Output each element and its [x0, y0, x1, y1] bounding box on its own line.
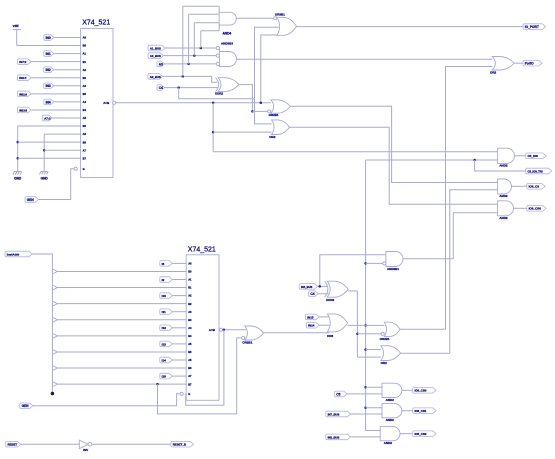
- input label RESET: [6, 441, 21, 447]
- svg-text:A5: A5: [188, 342, 192, 346]
- svg-text:B2: B2: [83, 76, 87, 80]
- comparator U18 X74_521: [186, 255, 219, 400]
- wire label to A2: [172, 295, 186, 297]
- wire U1 G to label: [39, 169, 74, 200]
- svg-text:OR2: OR2: [490, 70, 497, 74]
- svg-text:B6: B6: [188, 366, 192, 370]
- inverter U22 INV: [79, 440, 88, 449]
- svg-text:A3: A3: [188, 310, 192, 314]
- svg-text:C5: C5: [336, 392, 340, 396]
- output label RESET_B: [171, 441, 194, 447]
- wire U19 in1: [366, 386, 382, 388]
- wire A=B U-channel: [186, 330, 224, 406]
- or-gate U3 OR3B1: [277, 17, 297, 35]
- svg-text:A1: A1: [188, 278, 192, 282]
- output label C5_IO8_TRI: [526, 168, 552, 174]
- junction A7: [43, 149, 46, 152]
- junction net-Y d: [364, 386, 367, 389]
- svg-text:IN1: IN1: [46, 52, 51, 56]
- svg-text:B3: B3: [83, 92, 87, 96]
- wire U17 in1: [366, 349, 381, 351]
- input label IN4_BUS: [299, 284, 317, 290]
- wire A3: [164, 63, 216, 65]
- bus wire: [32, 254, 52, 394]
- svg-text:B4: B4: [188, 334, 192, 338]
- input label IN14: [306, 322, 319, 328]
- svg-text:IN0: IN0: [46, 36, 51, 40]
- wire RESET: [21, 443, 80, 445]
- xor-gate U13 XOR2: [327, 281, 348, 297]
- svg-text:AND2: AND2: [386, 418, 394, 422]
- output label C5_IO8: [526, 153, 546, 159]
- wire net-X vertical: [356, 291, 358, 357]
- ground GND1: [17, 169, 19, 171]
- svg-text:AND2: AND2: [499, 216, 507, 220]
- junction A=B 1: [212, 101, 215, 104]
- wire OR3B1 out to IO_PORT: [297, 26, 524, 28]
- wire lowOR2 riser to U10 in2: [450, 190, 498, 353]
- wire OR2B1 out: [290, 106, 497, 182]
- input label C5: [335, 391, 348, 397]
- U18 G bubble: [180, 392, 183, 395]
- svg-text:B2: B2: [188, 302, 192, 306]
- wire U15 out to U14 in3: [264, 332, 329, 334]
- bus tap 3: [53, 318, 57, 322]
- svg-text:C5_IO8: C5_IO8: [528, 154, 539, 158]
- svg-text:AND2B1: AND2B1: [387, 267, 399, 271]
- svg-text:X74_521: X74_521: [188, 247, 216, 254]
- svg-text:A4: A4: [83, 100, 87, 104]
- wire tap to B4: [57, 335, 186, 337]
- svg-text:IN4_BUS: IN4_BUS: [301, 285, 313, 289]
- input label GEN2: [20, 403, 33, 409]
- wire to TRI label: [475, 160, 526, 171]
- and-gate U4 AND3B3: [219, 52, 236, 67]
- input label I15: [160, 373, 173, 379]
- svg-text:AND2: AND2: [499, 194, 507, 198]
- svg-text:A=B: A=B: [103, 101, 110, 105]
- svg-text:B4: B4: [83, 108, 87, 112]
- input label IN15: [305, 314, 319, 320]
- wire label to A6: [172, 359, 186, 361]
- wire B5 net: [18, 125, 81, 127]
- junction XOR2 net: [251, 110, 254, 113]
- wire XOR2 to OR2B1 bubble: [252, 110, 267, 112]
- wire U1 A=B long: [116, 102, 271, 104]
- input label A0_BUS: [148, 74, 163, 80]
- svg-text:A2: A2: [83, 68, 87, 72]
- wire AND2 out: [515, 155, 526, 157]
- svg-text:C5_IO8_TRI: C5_IO8_TRI: [528, 169, 543, 173]
- wire U21 out: [400, 433, 413, 435]
- wire A0_BUS: [163, 76, 218, 82]
- svg-text:A2_BUS: A2_BUS: [150, 54, 161, 58]
- wire label to A4: [172, 327, 186, 329]
- input label IN0: [44, 35, 54, 41]
- svg-text:B7: B7: [83, 156, 87, 160]
- U16 input bubble: [381, 332, 384, 335]
- wire A1_BUS: [165, 47, 216, 49]
- U1 G pin bubble: [74, 167, 77, 170]
- junction net-Y e: [364, 407, 367, 410]
- junction TRI: [473, 159, 476, 162]
- svg-text:IN14: IN14: [308, 324, 315, 328]
- svg-text:IN2: IN2: [46, 68, 51, 72]
- wire U10 out: [512, 185, 527, 187]
- U22 bubble: [88, 442, 92, 446]
- U6 input bubble: [268, 110, 271, 113]
- wire AND3B3 out: [237, 58, 493, 60]
- input label IN3: [44, 83, 54, 89]
- svg-text:I12: I12: [162, 326, 167, 330]
- svg-text:A6: A6: [83, 132, 87, 136]
- wire U11 out: [514, 207, 527, 209]
- svg-text:IN11:6: IN11:6: [19, 92, 27, 96]
- output label IO8_CS: [527, 184, 545, 190]
- output label PortIO: [523, 60, 542, 66]
- U15 input bubble: [242, 336, 245, 339]
- wire vdd to U1 B0: [17, 45, 81, 47]
- or-gate U16 OR2B1 gateC: [384, 322, 400, 336]
- input label IN4: [44, 99, 54, 105]
- input label C4: [157, 85, 164, 91]
- wire A3 riser: [188, 14, 190, 64]
- bus tap 6: [53, 366, 57, 370]
- U1 A=B bubble: [113, 101, 116, 104]
- svg-text:GEN: GEN: [22, 404, 30, 408]
- or-gate U7 OR2: [272, 120, 290, 135]
- svg-text:X74_521: X74_521: [82, 20, 110, 27]
- svg-text:AND2: AND2: [384, 441, 392, 445]
- svg-text:InstAddr: InstAddr: [7, 252, 21, 256]
- junction net-Y c: [364, 348, 367, 351]
- input label IN7:2: [18, 59, 32, 65]
- svg-text:C4: C4: [159, 86, 163, 90]
- bus tap 2: [53, 301, 57, 305]
- junction A1_BUS: [200, 47, 203, 50]
- svg-text:GND: GND: [14, 177, 22, 181]
- junction B6: [16, 141, 19, 144]
- svg-text:A7: A7: [188, 374, 192, 378]
- wire tap to B2: [57, 303, 186, 305]
- wire IN7_BUS: [351, 413, 383, 415]
- svg-text:A1_BUS: A1_BUS: [150, 46, 161, 50]
- junction A=B 2: [260, 101, 263, 104]
- and-gate U12 AND2B1: [386, 252, 403, 267]
- wire A6 net: [44, 133, 80, 135]
- junction net-Y a: [364, 262, 367, 265]
- wire U16 out: [400, 328, 445, 330]
- wire C4 riser to OR3B1: [255, 27, 279, 99]
- output label IO8_CS1: [413, 408, 436, 414]
- input label A7:0: [42, 115, 52, 121]
- wire AND2B1 riser to U11 in2: [453, 213, 497, 259]
- svg-text:IO8_CS: IO8_CS: [529, 185, 540, 189]
- input label IN1: [44, 51, 54, 57]
- input label IN11:6: [18, 91, 32, 97]
- svg-text:AND2: AND2: [386, 398, 394, 402]
- input label A2_BUS: [148, 53, 163, 59]
- bus tap 1: [53, 285, 57, 289]
- wire B7: [18, 157, 81, 159]
- comparator U1 X74_521: [81, 28, 113, 177]
- wire A=B riser to OR3B1: [261, 35, 278, 103]
- wire U2A=B to U15: [223, 329, 246, 331]
- input label A3: [157, 61, 164, 67]
- svg-text:A3: A3: [83, 84, 87, 88]
- svg-text:OR2: OR2: [381, 361, 388, 365]
- wire IN4 riser to U12 in1: [320, 255, 386, 287]
- wire C4b: [318, 293, 328, 295]
- svg-text:I14: I14: [162, 358, 167, 362]
- svg-text:A=B: A=B: [209, 328, 216, 332]
- svg-text:OR3B1: OR3B1: [275, 13, 285, 17]
- U4 bubbles: [216, 46, 219, 49]
- wire label to A1: [172, 279, 186, 281]
- wire B6: [18, 141, 81, 143]
- input label I11: [160, 309, 173, 315]
- svg-text:PortO: PortO: [525, 62, 534, 66]
- svg-text:XOR2: XOR2: [326, 298, 335, 302]
- wire gateB net to AND2 in2: [366, 159, 498, 161]
- wire IN14: [319, 324, 329, 326]
- wire U19 out: [402, 389, 413, 391]
- svg-text:A0: A0: [188, 262, 192, 266]
- ground GND2: [43, 169, 45, 171]
- output label IO8_CS2: [413, 431, 436, 437]
- svg-text:B1: B1: [188, 286, 192, 290]
- svg-text:I15: I15: [162, 375, 167, 379]
- wire U21 in1: [366, 430, 381, 432]
- wire label to A3: [172, 311, 186, 313]
- input label I10: [160, 293, 173, 299]
- svg-text:G: G: [83, 167, 85, 171]
- input label I12: [160, 325, 173, 331]
- svg-text:RESET: RESET: [8, 443, 18, 447]
- input label IN2_BUS: [326, 434, 351, 440]
- svg-text:IN2_BUS: IN2_BUS: [328, 435, 340, 439]
- input label IN2: [44, 67, 54, 73]
- wire tap to B6: [57, 367, 186, 369]
- svg-text:RESET_B: RESET_B: [173, 443, 186, 447]
- svg-text:B3: B3: [188, 318, 192, 322]
- svg-text:B6: B6: [83, 140, 87, 144]
- svg-text:IN15: IN15: [307, 315, 314, 319]
- junction A0_BUS: [182, 75, 185, 78]
- svg-text:OR2B1: OR2B1: [269, 113, 279, 117]
- wire U20 out: [402, 410, 413, 412]
- svg-text:OR2B1: OR2B1: [380, 337, 390, 341]
- svg-text:I9: I9: [162, 278, 165, 282]
- bus end dot: [51, 392, 55, 396]
- wire U13 out: [348, 290, 357, 292]
- wire U20 in1: [366, 407, 382, 409]
- or-gate U14 OR3: [327, 314, 347, 332]
- junction A2_BUS: [193, 54, 196, 57]
- wire A=B drop: [212, 103, 214, 152]
- wire INV out: [92, 443, 171, 445]
- svg-text:IN3: IN3: [46, 84, 51, 88]
- svg-text:B0: B0: [83, 44, 87, 48]
- wire IN15: [319, 316, 330, 318]
- svg-text:IO8_CS1: IO8_CS1: [415, 409, 427, 413]
- svg-text:vdd: vdd: [13, 24, 19, 28]
- junction net-X: [356, 333, 359, 336]
- junction C4: [177, 86, 180, 89]
- wire A1_BUS riser: [200, 31, 202, 48]
- svg-text:A2: A2: [188, 294, 192, 298]
- wire GEN2 to G: [33, 394, 180, 406]
- wire A0_BUS riser: [182, 6, 184, 76]
- junction A=B 3: [212, 131, 215, 134]
- input label IN13:8: [18, 107, 32, 113]
- and-gate U19 AND2: [382, 383, 402, 397]
- wire A=B net to AND2 in1: [213, 151, 498, 153]
- and-gate U11 AND2: [498, 201, 514, 216]
- U3 input bubble: [274, 17, 277, 20]
- wire C4 drop to OR2: [255, 99, 272, 124]
- and-gate U9 AND2: [498, 148, 515, 163]
- wire U12 in2: [366, 262, 383, 264]
- svg-text:GEN: GEN: [27, 198, 35, 202]
- wire A=B to OR2 in2: [213, 131, 271, 133]
- wire XOR2 out: [239, 85, 253, 112]
- wire U12 out: [403, 258, 453, 260]
- or-gate U6 OR2B1: [271, 100, 291, 113]
- and-gate U21 AND2: [380, 427, 400, 441]
- wire net-X to gateC bubble: [357, 333, 383, 335]
- output label IO_PORT: [523, 24, 546, 30]
- wire tap to B5: [57, 351, 186, 353]
- junction chip2 A=B branch: [223, 329, 226, 332]
- svg-text:IN9:4: IN9:4: [19, 76, 26, 80]
- svg-text:B1: B1: [83, 60, 87, 64]
- wire C4 branch: [179, 88, 255, 99]
- svg-text:A1: A1: [83, 52, 87, 56]
- junction B7 net: [156, 383, 159, 386]
- bus label InstAddr: [5, 251, 32, 257]
- svg-text:OR2B1: OR2B1: [242, 341, 252, 345]
- input label GEN: [25, 197, 39, 203]
- input label IN9:4: [18, 75, 32, 81]
- wire C4: [164, 87, 217, 89]
- xor-gate U5 XOR2: [218, 78, 239, 92]
- wire C5: [347, 393, 382, 395]
- U12 input bubble: [383, 262, 386, 265]
- wire B7 branch to gateA: [158, 338, 242, 414]
- svg-text:B5: B5: [188, 350, 192, 354]
- svg-text:A3: A3: [159, 62, 163, 66]
- svg-text:IN7:2: IN7:2: [19, 60, 26, 64]
- and-gate U10 AND2: [498, 179, 512, 194]
- svg-text:A6: A6: [188, 358, 192, 362]
- wire gateC riser to OR2 in2: [446, 67, 493, 330]
- wire tap to B7: [57, 383, 186, 385]
- svg-text:AND4: AND4: [223, 32, 232, 36]
- svg-text:B0: B0: [188, 270, 192, 274]
- input label I9: [160, 277, 173, 283]
- junction B7: [16, 157, 19, 160]
- wire tap to B0: [57, 270, 186, 272]
- svg-text:IN4: IN4: [46, 100, 51, 104]
- svg-text:AND3B3: AND3B3: [221, 42, 233, 46]
- bus tap 5: [53, 350, 57, 354]
- svg-text:A5: A5: [83, 116, 87, 120]
- svg-text:IO8_CS2: IO8_CS2: [415, 432, 427, 436]
- or-gate U8 OR2 top right: [492, 57, 514, 71]
- svg-text:B5: B5: [83, 124, 87, 128]
- svg-text:I13: I13: [162, 342, 167, 346]
- input label A1_BUS: [148, 45, 165, 51]
- and-gate U2 AND4: [219, 12, 236, 25]
- svg-text:C4: C4: [310, 292, 314, 296]
- wire label to A7: [172, 375, 186, 377]
- svg-text:I8: I8: [162, 262, 165, 266]
- svg-text:A7: A7: [83, 148, 87, 152]
- wire OR2 out: [290, 127, 498, 204]
- input label I14: [160, 357, 173, 363]
- svg-text:XOR2: XOR2: [215, 92, 224, 96]
- svg-text:IN13:8: IN13:8: [19, 108, 27, 112]
- wire net-X to U17 in2: [357, 356, 380, 358]
- svg-text:A7:0: A7:0: [44, 116, 51, 120]
- bus tap 7: [53, 382, 57, 386]
- input label C4b: [309, 291, 319, 297]
- wire AND4 out: [236, 17, 273, 19]
- svg-text:IO_PORT: IO_PORT: [525, 25, 539, 29]
- wire U17 out: [401, 352, 450, 354]
- input label I8: [160, 261, 173, 267]
- svg-text:IO8_CS0: IO8_CS0: [529, 207, 542, 211]
- svg-text:INV: INV: [83, 448, 88, 452]
- svg-text:GND: GND: [41, 177, 49, 181]
- svg-text:I11: I11: [162, 310, 166, 314]
- svg-text:A4: A4: [188, 326, 192, 330]
- svg-text:IO8_CS0: IO8_CS0: [415, 389, 427, 393]
- output label IO8_CS0: [527, 206, 546, 212]
- wire A2_BUS riser: [193, 23, 195, 56]
- svg-text:B7: B7: [188, 382, 192, 386]
- wire tap to B1: [57, 287, 186, 289]
- svg-text:A0_BUS: A0_BUS: [150, 75, 161, 79]
- wire label to A0: [172, 262, 186, 264]
- bus tap 4: [53, 334, 57, 338]
- input label I13: [160, 341, 173, 347]
- svg-text:IN7_BUS: IN7_BUS: [328, 412, 340, 416]
- svg-text:G: G: [188, 392, 190, 396]
- output label IO8_CS0b: [413, 388, 436, 394]
- wire tap to B3: [57, 319, 186, 321]
- bus tap 0: [53, 269, 57, 273]
- or-gate U17 OR2 lower: [381, 346, 401, 361]
- wire A2_BUS: [164, 55, 217, 57]
- wire U14 out: [348, 324, 385, 326]
- svg-text:AND2: AND2: [499, 164, 507, 168]
- svg-text:OR2: OR2: [269, 135, 276, 139]
- svg-text:A0: A0: [83, 36, 87, 40]
- or-gate U15 OR2B1 gateA: [245, 326, 264, 340]
- junction A3: [187, 63, 190, 66]
- U2 A=B bubble: [219, 328, 222, 331]
- wire OR2 out to PortIO: [514, 62, 523, 64]
- wire A7: [44, 149, 80, 151]
- svg-text:OR3: OR3: [327, 334, 334, 338]
- junction IN4_BUS: [319, 285, 322, 288]
- input label IN7_BUS: [326, 411, 351, 417]
- wire net-Y vertical: [365, 160, 367, 431]
- wire label to A5: [172, 343, 186, 345]
- and-gate U20 AND2: [382, 404, 402, 418]
